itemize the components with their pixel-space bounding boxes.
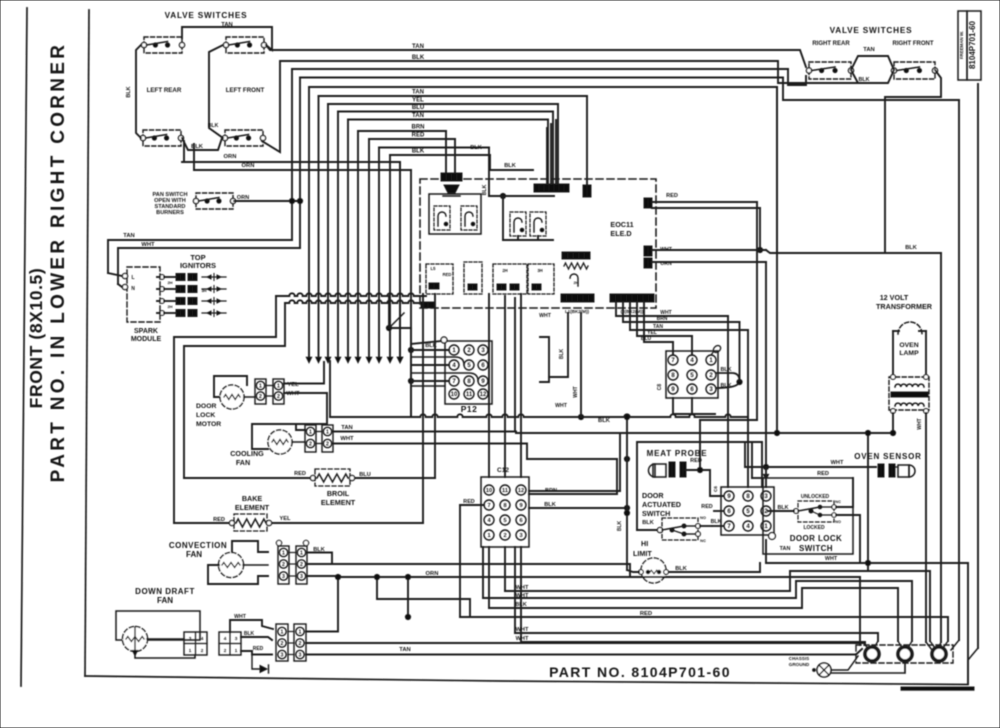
svg-text:YEL: YEL — [412, 98, 424, 104]
svg-text:SWITCH: SWITCH — [642, 509, 670, 518]
svg-text:1: 1 — [309, 429, 312, 435]
svg-text:2: 2 — [224, 648, 227, 653]
svg-text:1: 1 — [282, 550, 285, 556]
svg-text:COOLING: COOLING — [230, 449, 264, 458]
svg-text:TAN: TAN — [123, 233, 134, 239]
svg-text:RED: RED — [817, 471, 829, 477]
svg-text:2H: 2H — [502, 268, 507, 273]
svg-text:NO: NO — [700, 515, 706, 520]
svg-text:BLK: BLK — [412, 149, 425, 155]
svg-text:TAN: TAN — [780, 546, 791, 552]
svg-text:RED: RED — [412, 133, 425, 139]
svg-text:5: 5 — [503, 518, 506, 524]
svg-text:BLK: BLK — [711, 519, 722, 525]
svg-text:TAN: TAN — [863, 47, 874, 53]
svg-text:WHT: WHT — [831, 460, 844, 466]
svg-text:2: 2 — [201, 648, 204, 653]
svg-text:NC: NC — [835, 499, 841, 504]
svg-text:ORN: ORN — [242, 163, 255, 169]
svg-text:RIGHT REAR: RIGHT REAR — [812, 41, 850, 47]
svg-text:TAN: TAN — [341, 425, 352, 431]
svg-text:TRANSFORMER: TRANSFORMER — [876, 302, 933, 311]
svg-text:BLU: BLU — [412, 105, 424, 111]
svg-text:WHT: WHT — [555, 403, 568, 409]
svg-text:2: 2 — [300, 562, 303, 568]
svg-text:1: 1 — [277, 383, 280, 389]
svg-text:1: 1 — [299, 629, 302, 635]
svg-text:LOCK: LOCK — [196, 412, 215, 419]
svg-text:BROIL: BROIL — [327, 489, 350, 498]
svg-text:3: 3 — [519, 533, 522, 539]
svg-text:TAN: TAN — [412, 90, 424, 96]
svg-text:BLK: BLK — [858, 77, 869, 83]
svg-text:FAN: FAN — [157, 596, 173, 605]
svg-text:3: 3 — [299, 652, 302, 658]
svg-text:12 VOLT: 12 VOLT — [880, 293, 909, 302]
svg-text:C12: C12 — [497, 467, 509, 474]
svg-text:MEAT PROBE: MEAT PROBE — [647, 449, 708, 458]
svg-text:OVEN: OVEN — [899, 342, 918, 349]
svg-text:2: 2 — [259, 394, 262, 400]
svg-text:BLK: BLK — [720, 383, 731, 389]
svg-text:LEFT FRONT: LEFT FRONT — [226, 87, 265, 94]
svg-text:3: 3 — [281, 652, 284, 658]
svg-text:WHT: WHT — [917, 418, 923, 429]
svg-text:1: 1 — [300, 550, 303, 556]
svg-text:UNLOCKED: UNLOCKED — [801, 494, 830, 500]
svg-text:GROUND: GROUND — [789, 662, 810, 667]
svg-text:2: 2 — [503, 533, 506, 539]
svg-text:NC: NC — [700, 538, 706, 543]
svg-text:1: 1 — [326, 429, 329, 435]
svg-text:LAMP: LAMP — [899, 350, 919, 357]
svg-text:1: 1 — [235, 648, 238, 653]
svg-text:N: N — [131, 286, 135, 292]
svg-text:YEL: YEL — [280, 516, 291, 522]
svg-text:CONVECTION: CONVECTION — [169, 541, 227, 550]
svg-text:MOTOR: MOTOR — [196, 421, 221, 428]
svg-text:11: 11 — [502, 488, 508, 494]
svg-text:11: 11 — [466, 392, 473, 398]
svg-text:RED: RED — [701, 504, 712, 510]
svg-text:BLK: BLK — [905, 245, 917, 251]
svg-text:PART NO. IN LOWER RIGHT CORNER: PART NO. IN LOWER RIGHT CORNER — [48, 42, 69, 483]
svg-text:1: 1 — [259, 383, 262, 389]
svg-text:6: 6 — [519, 518, 522, 524]
svg-text:12: 12 — [518, 488, 524, 494]
svg-text:FRONT (8X10.5): FRONT (8X10.5) — [26, 268, 46, 409]
svg-text:ACTUATED: ACTUATED — [642, 500, 681, 509]
svg-text:WHT: WHT — [825, 556, 838, 562]
svg-text:IGNITORS: IGNITORS — [180, 261, 216, 270]
svg-text:(2(BK2(M)): (2(BK2(M)) — [621, 309, 644, 314]
svg-text:BLK: BLK — [598, 418, 611, 424]
svg-text:HI: HI — [641, 539, 648, 548]
svg-text:BLK: BLK — [126, 86, 132, 97]
svg-text:OVEN SENSOR: OVEN SENSOR — [854, 452, 921, 461]
svg-text:10: 10 — [451, 392, 458, 398]
svg-text:8: 8 — [503, 503, 506, 509]
svg-text:WHT: WHT — [573, 386, 579, 397]
svg-text:FAN: FAN — [236, 458, 250, 467]
svg-text:SWITCH: SWITCH — [799, 544, 833, 553]
svg-text:BRN: BRN — [657, 316, 668, 322]
svg-text:C6: C6 — [713, 486, 718, 492]
svg-text:WHT: WHT — [340, 436, 354, 442]
svg-text:8104P701-60: 8104P701-60 — [968, 20, 977, 69]
svg-text:L: L — [131, 275, 134, 281]
svg-text:2H: 2H — [573, 280, 578, 285]
svg-text:FREEMAN W.: FREEMAN W. — [959, 31, 964, 59]
svg-text:BLK: BLK — [482, 184, 488, 195]
svg-text:C8: C8 — [657, 384, 663, 391]
svg-text:BLK: BLK — [617, 520, 623, 531]
svg-text:L5: L5 — [431, 266, 437, 271]
svg-text:RIGHT FRONT: RIGHT FRONT — [893, 41, 934, 47]
svg-text:2: 2 — [299, 641, 302, 647]
svg-text:WHT: WHT — [539, 313, 552, 319]
svg-text:NO: NO — [835, 519, 841, 524]
svg-text:3H: 3H — [201, 288, 206, 293]
svg-text:LEFT REAR: LEFT REAR — [147, 87, 182, 94]
svg-text:3: 3 — [282, 574, 285, 580]
svg-text:DOOR LOCK: DOOR LOCK — [790, 534, 843, 543]
svg-text:2H: 2H — [167, 280, 172, 285]
svg-text:TAN: TAN — [412, 113, 424, 119]
svg-text:1: 1 — [189, 648, 192, 653]
svg-text:4: 4 — [224, 636, 227, 641]
svg-text:ELE.D: ELE.D — [610, 229, 631, 238]
svg-text:10: 10 — [486, 488, 492, 494]
svg-text:1: 1 — [487, 533, 490, 539]
svg-text:RED: RED — [443, 272, 452, 277]
svg-text:2H: 2H — [167, 304, 172, 309]
svg-text:DOOR: DOOR — [642, 491, 664, 500]
svg-text:2: 2 — [309, 441, 312, 447]
svg-text:RED: RED — [690, 458, 702, 464]
svg-text:2: 2 — [326, 441, 329, 447]
svg-text:9: 9 — [519, 503, 522, 509]
svg-text:WHT: WHT — [286, 391, 300, 397]
svg-text:2: 2 — [282, 562, 285, 568]
svg-text:12: 12 — [480, 392, 487, 398]
svg-text:1: 1 — [281, 629, 284, 635]
svg-text:3: 3 — [300, 574, 303, 580]
svg-text:DOOR: DOOR — [196, 403, 216, 410]
svg-text:3: 3 — [235, 636, 238, 641]
svg-text:ELEMENT: ELEMENT — [235, 503, 270, 512]
svg-text:CHASSIS: CHASSIS — [789, 656, 809, 661]
svg-text:RED: RED — [666, 193, 678, 199]
svg-text:LOCKED: LOCKED — [803, 525, 825, 531]
svg-text:ORN: ORN — [224, 154, 237, 160]
svg-text:4: 4 — [201, 636, 204, 641]
svg-text:BLK: BLK — [559, 348, 565, 359]
svg-text:BURNERS: BURNERS — [156, 210, 184, 216]
svg-text:7: 7 — [487, 503, 490, 509]
svg-text:BLK: BLK — [208, 123, 219, 129]
svg-text:3H: 3H — [537, 268, 542, 273]
svg-text:TAN: TAN — [399, 647, 410, 653]
svg-text:SPARK: SPARK — [134, 328, 158, 335]
svg-text:VALVE SWITCHES: VALVE SWITCHES — [165, 11, 248, 20]
svg-text:BRN: BRN — [412, 125, 425, 131]
svg-text:BLK: BLK — [504, 163, 516, 169]
svg-text:BAKE: BAKE — [242, 494, 263, 503]
svg-text:PART NO. 8104P701-60: PART NO. 8104P701-60 — [549, 664, 731, 680]
svg-text:BLU: BLU — [641, 336, 652, 342]
svg-text:FAN: FAN — [186, 550, 202, 559]
svg-text:MODULE: MODULE — [131, 336, 162, 343]
svg-text:RED: RED — [294, 471, 306, 477]
svg-text:3: 3 — [189, 636, 192, 641]
svg-text:BLK: BLK — [642, 520, 654, 526]
svg-text:LIMIT: LIMIT — [633, 549, 652, 558]
svg-text:VALVE SWITCHES: VALVE SWITCHES — [830, 26, 913, 35]
svg-text:2: 2 — [281, 641, 284, 647]
svg-text:P12: P12 — [461, 404, 478, 414]
svg-text:RED: RED — [253, 646, 264, 652]
svg-text:BLK: BLK — [720, 367, 731, 373]
svg-text:2: 2 — [277, 394, 280, 400]
svg-text:DOWN DRAFT: DOWN DRAFT — [135, 587, 195, 596]
svg-text:EOC11: EOC11 — [610, 220, 633, 229]
svg-text:ELEMENT: ELEMENT — [321, 498, 356, 507]
svg-text:BLK: BLK — [470, 145, 482, 151]
